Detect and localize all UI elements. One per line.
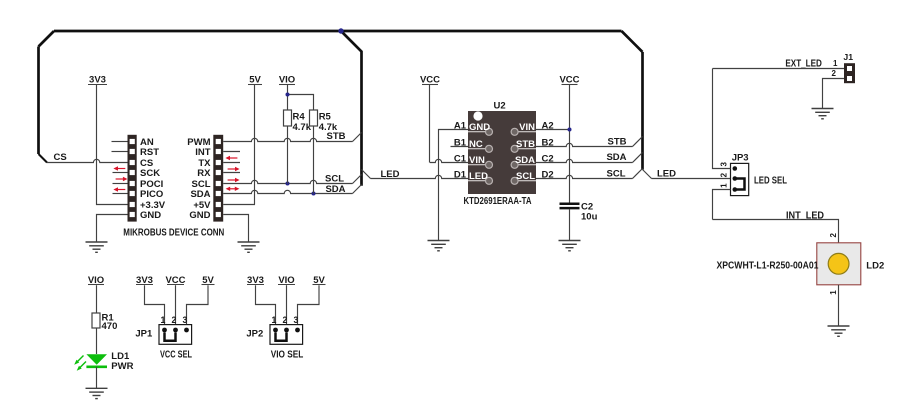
svg-text:STB: STB [516, 139, 535, 150]
arrow SDA direction [226, 187, 240, 191]
wire TX stub [223, 162, 240, 164]
svg-text:CS: CS [54, 152, 67, 163]
resistor R1 [92, 313, 117, 333]
wire CS [47, 159, 128, 162]
wire PWM/STB to bus [223, 138, 352, 141]
svg-text:3V3: 3V3 [89, 75, 106, 86]
svg-text:SCL: SCL [516, 171, 535, 182]
wire GND left header [97, 215, 128, 243]
wire SDA to bus [223, 190, 352, 193]
svg-text:D1: D1 [454, 170, 467, 181]
right header pin labels [187, 137, 211, 221]
svg-text:LED: LED [469, 171, 488, 182]
U2 left pin labels [454, 121, 467, 181]
svg-text:U2: U2 [494, 100, 506, 111]
svg-text:PWR: PWR [111, 361, 133, 372]
wire U2 B1 stub [451, 146, 469, 148]
wire EXT_LED [713, 68, 845, 70]
junction SDA/R5 [312, 192, 316, 196]
svg-text:VIO SEL: VIO SEL [271, 350, 304, 361]
svg-text:1: 1 [272, 315, 277, 325]
jumper JP1 [159, 325, 192, 345]
svg-text:INT: INT [195, 147, 211, 158]
wire 3V3 to JP1 pin1 [145, 285, 165, 330]
wire U2 A1 to ground [439, 130, 469, 241]
junction bus top [338, 28, 343, 33]
JP3 pin numbers [719, 162, 728, 188]
wire LED bus to JP3 [643, 170, 652, 179]
wire INT stub [223, 151, 240, 153]
wire 5V vertical [254, 85, 256, 205]
svg-text:A1: A1 [454, 121, 467, 132]
left header pin labels [140, 137, 166, 221]
svg-text:RX: RX [197, 168, 211, 179]
svg-text:SDA: SDA [190, 189, 210, 200]
svg-text:3: 3 [719, 162, 728, 167]
svg-text:2: 2 [172, 315, 177, 325]
svg-text:VCC: VCC [420, 75, 440, 86]
wire 3V3 vertical to +3.3V pin [97, 85, 128, 205]
svg-text:1: 1 [833, 59, 838, 68]
svg-text:VIN: VIN [469, 155, 485, 166]
svg-text:C1: C1 [454, 154, 467, 165]
svg-text:3: 3 [183, 315, 188, 325]
LED LD2 [817, 243, 861, 285]
JP1 pin numbers [161, 315, 188, 325]
wire VIO to JP2 pin2 [286, 285, 288, 330]
svg-text:470: 470 [102, 321, 118, 332]
svg-text:JP3: JP3 [732, 152, 749, 163]
wire C2 to ground [569, 209, 571, 240]
wire SDA U2 C2 to bus [536, 159, 633, 162]
connector MIKROBUS left header [128, 135, 137, 222]
wire PICO stub [113, 193, 128, 195]
svg-text:STB: STB [608, 137, 627, 148]
arrow TX direction [228, 167, 240, 171]
svg-text:KTD2691ERAA-TA: KTD2691ERAA-TA [464, 196, 532, 207]
wire AN stub [112, 141, 128, 143]
resistor R4 [284, 110, 312, 133]
svg-text:SDA: SDA [515, 155, 535, 166]
wire SCK stub [113, 172, 128, 174]
svg-text:JP1: JP1 [135, 329, 153, 340]
svg-text:VCC SEL: VCC SEL [160, 350, 192, 361]
wire RST stub [112, 151, 128, 153]
wire POCI stub [113, 183, 128, 185]
ground U2 A1 [428, 241, 450, 251]
jumper JP2 [270, 325, 303, 345]
wire R5 to SDA [313, 126, 315, 194]
wire VCC to JP1 pin2 [175, 285, 177, 330]
svg-text:JP2: JP2 [246, 329, 263, 340]
ground C2 [559, 241, 581, 251]
svg-text:1: 1 [161, 315, 166, 325]
wire bus top (thick) [39, 31, 643, 170]
svg-text:LD2: LD2 [866, 260, 884, 271]
svg-text:2: 2 [719, 172, 728, 177]
wire LED from bus to U2 D1 [362, 170, 371, 179]
ground LD2 [828, 326, 850, 336]
ground LD1 [86, 388, 108, 398]
ground J1 [812, 109, 834, 119]
svg-text:4.7k: 4.7k [293, 122, 312, 133]
svg-text:3: 3 [294, 315, 299, 325]
svg-text:2: 2 [832, 69, 837, 78]
connector MIKROBUS right header [213, 135, 223, 222]
arrow INT direction [225, 156, 237, 160]
wire R1 to LD1 [96, 328, 98, 354]
resistor R5 [310, 110, 338, 133]
svg-text:VIN: VIN [519, 122, 535, 133]
svg-text:5V: 5V [249, 75, 261, 86]
wire GND right header [223, 215, 248, 243]
jumper JP3 [731, 163, 749, 195]
connector J1 [844, 63, 855, 83]
capacitor C2 [560, 201, 598, 222]
svg-text:SCL: SCL [607, 169, 626, 180]
wire VCC right vertical [569, 85, 571, 203]
svg-text:SDA: SDA [606, 152, 626, 163]
LED LD1 [74, 354, 107, 371]
wire J1 pin2 to ground [823, 79, 845, 109]
junction SCL/R4 [286, 182, 290, 186]
wire +5V pin to 5V rail [223, 204, 255, 206]
svg-text:INT_LED: INT_LED [786, 211, 824, 222]
svg-text:VCC: VCC [559, 75, 579, 86]
svg-text:SCK: SCK [140, 168, 160, 179]
ground right header [238, 242, 260, 252]
wire LD1 to ground [96, 367, 98, 389]
svg-text:GND: GND [189, 210, 210, 221]
wire 5V to JP1 pin3 [187, 285, 209, 330]
svg-text:B1: B1 [454, 138, 467, 149]
wire RX stub [223, 172, 240, 174]
svg-text:LED: LED [657, 169, 676, 180]
svg-text:LED: LED [381, 169, 400, 180]
svg-text:GND: GND [140, 210, 161, 221]
svg-text:J1: J1 [843, 52, 853, 62]
svg-text:SCL: SCL [325, 174, 344, 185]
svg-text:10u: 10u [581, 211, 598, 222]
svg-text:SDA: SDA [325, 184, 345, 195]
JP2 pin numbers [272, 315, 299, 325]
wire U2 A2 to VCC [536, 129, 570, 131]
wire bus middle drop (thick) [341, 31, 362, 186]
arrow POCI direction [116, 177, 128, 181]
svg-text:GND: GND [469, 122, 490, 133]
junction A2/VCC [568, 128, 572, 132]
svg-text:4.7k: 4.7k [319, 122, 338, 133]
junction VIO split [286, 93, 290, 97]
wire LD2 to ground [838, 285, 840, 326]
wire SCL to bus [223, 180, 352, 183]
svg-text:MIKROBUS DEVICE CONN: MIKROBUS DEVICE CONN [123, 227, 224, 238]
svg-text:RST: RST [140, 147, 159, 158]
svg-text:2: 2 [283, 315, 288, 325]
wire SCL U2 D2 to bus [536, 175, 633, 178]
op-amp U2 KTD2691ERAA-TA body [468, 111, 536, 194]
svg-text:EXT_LED: EXT_LED [785, 58, 822, 69]
wire VCC to U2 C1 [429, 85, 431, 163]
svg-text:LED SEL: LED SEL [754, 176, 787, 187]
wire 3V3 to JP2 pin1 [256, 285, 276, 330]
U2 right pin labels [542, 121, 554, 181]
svg-text:1: 1 [719, 183, 728, 188]
wire 5V to JP2 pin3 [298, 285, 320, 330]
wire JP3 pin1 to INT_LED [713, 190, 731, 220]
arrow RX direction [228, 178, 240, 182]
wire R4 to SCL [287, 126, 289, 184]
wire VIO to resistors [288, 85, 314, 110]
ground left header [86, 242, 108, 252]
wire JP3 pin3 to EXT_LED [713, 69, 731, 169]
svg-text:XPCWHT-L1-R250-00A01: XPCWHT-L1-R250-00A01 [717, 260, 819, 271]
svg-text:1: 1 [829, 290, 838, 295]
arrow PICO direction [113, 187, 125, 191]
arrow SCK direction [113, 166, 125, 170]
wire bus left chamfer to CS [39, 154, 48, 163]
wire VIO to R1 [96, 285, 98, 313]
svg-text:VIO: VIO [279, 75, 295, 86]
svg-text:NC: NC [469, 139, 483, 150]
wire STB U2 B2 to bus [536, 143, 633, 146]
svg-text:2: 2 [829, 232, 838, 237]
svg-text:PICO: PICO [140, 189, 163, 200]
wire INT_LED [713, 220, 839, 243]
